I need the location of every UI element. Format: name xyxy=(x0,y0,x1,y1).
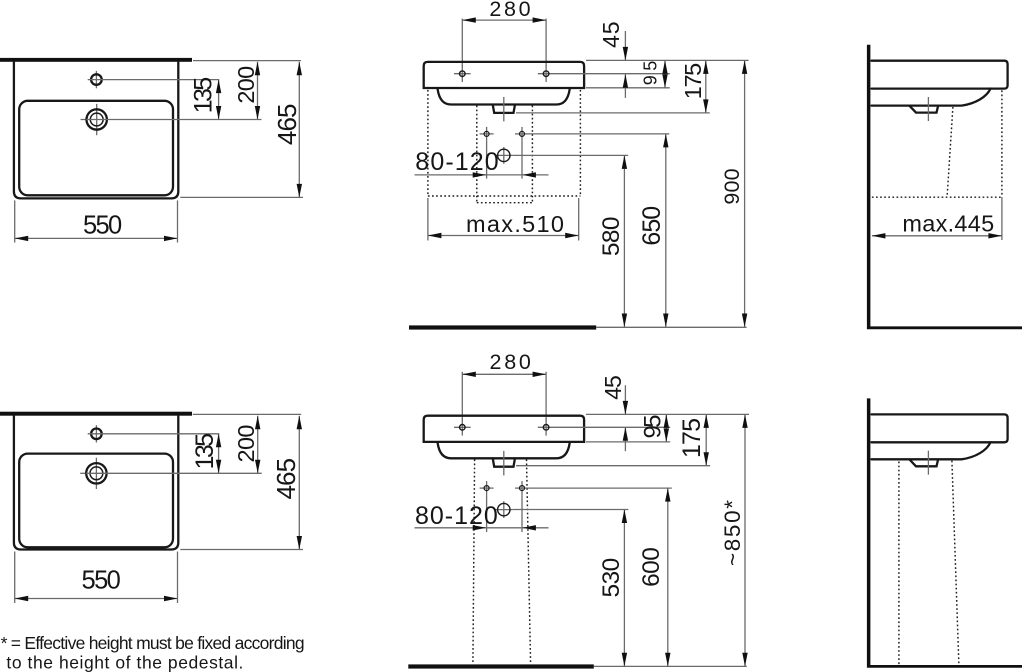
floor line (front, bottom) xyxy=(408,664,594,668)
fascia bottom leader (front, bottom) xyxy=(586,441,670,443)
siphon outlet (front, bottom) xyxy=(495,501,512,518)
dimension 465 (plan, bottom) xyxy=(298,416,300,550)
dimension 95 (front, bottom) xyxy=(665,414,667,442)
tap axis (side, bottom) xyxy=(927,451,929,475)
dimension 280 extension lines (front, top) xyxy=(461,19,463,67)
dimension 80-120 extension lines (front, top) xyxy=(486,141,488,179)
drain trap cover (front, bottom) xyxy=(493,459,515,467)
dimension 580 (front, top) xyxy=(623,155,625,327)
washbasin outer outline (plan, top) xyxy=(14,62,178,199)
dimension 95 (front, top) xyxy=(664,60,666,87)
hidden outline dashed (front, top) xyxy=(427,90,429,196)
dimension 550 extension lines (plan, top) xyxy=(14,200,16,242)
mounting hole right (front, top) xyxy=(538,65,555,82)
svg-text:45: 45 xyxy=(598,21,624,47)
basin apron outline (front, top) xyxy=(438,89,570,105)
bolt hole leader (front, top) xyxy=(529,133,669,135)
siphon leader (front, top) xyxy=(512,154,628,156)
pedestal outline dotted right (side, bottom) xyxy=(952,461,959,665)
max.445 extension line (side, top) xyxy=(1001,197,1003,240)
mounting hole left (front, top) xyxy=(454,65,471,82)
pedestal outline dotted left (front, bottom) xyxy=(473,459,475,664)
trap leader (front, top) xyxy=(516,112,710,114)
dimension 530 (front, bottom) xyxy=(623,510,625,667)
fixing bolt hole right (front, bottom) xyxy=(515,481,529,495)
floor extension line (bottom) xyxy=(594,665,747,667)
trap axis line (front, bottom) xyxy=(503,451,505,476)
svg-text:to the height of the pedestal.: to the height of the pedestal. xyxy=(6,652,243,672)
siphon outlet (front, top) xyxy=(495,147,512,164)
dimension 550 (plan, bottom) xyxy=(15,598,178,600)
trap axis line (front, top) xyxy=(503,97,505,122)
dimension max.445 (side, top) xyxy=(872,235,1002,237)
drain outlet (plan, top) xyxy=(81,104,107,135)
tap hole (plan, bottom) xyxy=(91,425,102,442)
svg-text:280: 280 xyxy=(490,350,531,374)
mounting hole left (front, bottom) xyxy=(454,419,471,436)
dimension 280 extension lines (front, bottom) xyxy=(461,372,463,420)
washbasin side profile (bottom) xyxy=(872,414,1008,442)
dimension 45 (front, bottom) xyxy=(624,385,626,414)
svg-text:* = Effective height must be f: * = Effective height must be fixed accor… xyxy=(1,633,305,653)
drain leader (plan, top) xyxy=(86,119,261,121)
svg-text:580: 580 xyxy=(598,216,625,256)
dimension max.510 (front, top) xyxy=(428,235,579,237)
fixing bolt hole left (front, bottom) xyxy=(480,481,494,495)
svg-text:175: 175 xyxy=(680,63,706,100)
svg-text:200: 200 xyxy=(233,66,259,104)
trap leader (front, bottom) xyxy=(516,465,710,467)
dimension 135 (plan, top) xyxy=(218,80,220,120)
svg-text:95: 95 xyxy=(641,61,661,86)
washbasin side profile (top) xyxy=(872,61,1008,89)
basin underside (side, bottom) xyxy=(872,442,991,459)
svg-text:80-120: 80-120 xyxy=(415,148,498,176)
svg-text:175: 175 xyxy=(678,418,706,458)
mounting hole leader (front, bottom) xyxy=(554,426,670,428)
floor line (front, top) xyxy=(409,325,596,329)
wall leader (plan, bottom) xyxy=(193,413,301,415)
svg-text:max.445: max.445 xyxy=(902,210,994,236)
basin bowl inner outline (plan, top) xyxy=(19,101,173,196)
pedestal outline dotted left (side, bottom) xyxy=(898,462,900,666)
svg-text:600: 600 xyxy=(638,547,665,587)
pedestal clearance dashed (front, top) xyxy=(476,106,478,203)
dimension 200 (plan, bottom) xyxy=(257,416,259,474)
fascia bottom leader (front, top) xyxy=(586,87,670,89)
wall and floor (side, bottom) xyxy=(867,398,1022,667)
dimension max.510 extension lines (front, top) xyxy=(427,198,429,241)
wall (plan view, bottom row) xyxy=(0,412,192,416)
tap axis (side, top) xyxy=(927,97,929,121)
drain trap cover (front, top) xyxy=(493,105,515,113)
basin apron outline (front, bottom) xyxy=(438,443,570,459)
wall leader (plan, top) xyxy=(193,60,301,62)
washbasin front outline (bottom) xyxy=(424,416,584,442)
svg-text:550: 550 xyxy=(83,212,122,240)
max projection dashed (side, top) xyxy=(1001,90,1003,197)
dimension 200 (plan, top) xyxy=(257,62,259,120)
dimension 900 (front, top) xyxy=(744,60,746,327)
dimension 280 (front, top) xyxy=(462,19,546,21)
drain leader (plan, bottom) xyxy=(86,472,262,474)
svg-text:280: 280 xyxy=(489,0,530,21)
dimension 650 (front, top) xyxy=(665,134,667,327)
dimension 135 (plan, bottom) xyxy=(218,434,220,474)
dimension 465 (plan, top) xyxy=(298,62,300,198)
dimension 550 extension lines (plan, bottom) xyxy=(14,552,16,604)
svg-text:45: 45 xyxy=(600,375,626,400)
svg-text:550: 550 xyxy=(82,566,121,594)
drain outlet (plan, bottom) xyxy=(80,458,106,489)
svg-text:465: 465 xyxy=(271,458,301,500)
fixing bolt hole left (front, top) xyxy=(480,127,494,141)
pedestal outline dotted right (front, bottom) xyxy=(527,459,531,664)
dimension 80-120 (front, bottom) xyxy=(415,527,549,529)
dimension 175 (front, bottom) xyxy=(705,414,707,465)
basin top leader (front, bottom) xyxy=(586,413,749,415)
dimension 175 (front, top) xyxy=(705,60,707,113)
svg-text:135: 135 xyxy=(190,77,218,113)
basin bowl inner outline (plan, bottom) xyxy=(19,454,173,548)
dimension 280 (front, bottom) xyxy=(462,373,546,375)
trap cover (side, top) xyxy=(910,106,939,113)
svg-text:465: 465 xyxy=(272,104,302,146)
dimension 550 (plan, top) xyxy=(15,237,178,239)
svg-text:200: 200 xyxy=(233,425,259,463)
svg-text:80-120: 80-120 xyxy=(415,502,498,530)
wall (plan view, top row) xyxy=(0,58,192,62)
dimension 80-120 extension lines (front, bottom) xyxy=(486,495,488,532)
mounting hole right (front, bottom) xyxy=(538,419,555,436)
basin top leader (front, top) xyxy=(586,59,749,61)
floor extension line (top) xyxy=(596,326,746,328)
wall and floor (side, top) xyxy=(867,45,1022,330)
washbasin outer outline (plan, bottom) xyxy=(14,416,178,550)
washbasin front outline (top) xyxy=(424,62,584,88)
trap cover (side, bottom) xyxy=(910,460,939,467)
siphon leader (front, bottom) xyxy=(512,509,628,511)
tap hole (plan, top) xyxy=(91,71,102,88)
basin bottom leader (plan, top) xyxy=(180,196,303,198)
svg-text:max.510: max.510 xyxy=(466,211,564,237)
svg-text:135: 135 xyxy=(191,433,219,469)
bolt hole leader (front, bottom) xyxy=(529,487,672,489)
svg-text:900: 900 xyxy=(720,168,744,204)
dimension 80-120 (front, top) xyxy=(415,174,549,176)
dimension 600 (front, bottom) xyxy=(667,488,669,666)
fixing bolt hole right (front, top) xyxy=(515,127,529,141)
tap hole leader (plan, top) xyxy=(88,79,220,81)
svg-text:95: 95 xyxy=(640,415,667,439)
basin bottom leader (plan, bottom) xyxy=(180,549,303,551)
svg-text:650: 650 xyxy=(638,206,666,246)
svg-text:~850*: ~850* xyxy=(720,500,745,566)
basin underside (side, top) xyxy=(872,89,991,106)
mounting hole leader (front, top) xyxy=(554,73,669,75)
dimension 45 (front, top) xyxy=(624,31,626,60)
svg-text:530: 530 xyxy=(598,558,625,598)
dimension ~850* (front, bottom) xyxy=(744,414,746,666)
tap hole leader (plan, bottom) xyxy=(88,433,220,435)
